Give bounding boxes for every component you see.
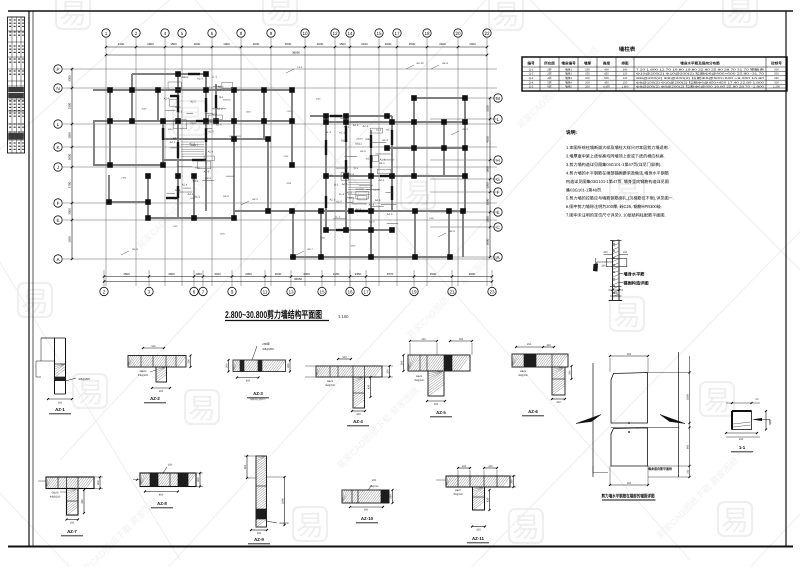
bottom part — [610, 286, 622, 288]
core1 black wall bars — [163, 74, 216, 198]
svg-text:2100: 2100 — [361, 42, 368, 46]
sheet frame inner left border — [32, 11, 34, 546]
svg-text:AZ-11: AZ-11 — [472, 536, 485, 541]
svg-text:易: 易 — [296, 510, 324, 541]
svg-text:2000: 2000 — [469, 42, 476, 46]
svg-text:3050: 3050 — [303, 272, 310, 276]
svg-text:2000: 2000 — [253, 42, 260, 46]
svg-text:3.剪力墙构造详见图集03G101-1第47页(详见门窗表): 3.剪力墙构造详见图集03G101-1第47页(详见门窗表). — [566, 162, 662, 167]
svg-text:Φ10@200(2) Φ10@200(2) 拉筋Φ6@60: Φ10@200(2) Φ10@200(2) 拉筋Φ6@600×600 25.80… — [636, 72, 765, 76]
peripheral leader labels — [121, 62, 468, 255]
shear wall columns black — [106, 71, 468, 260]
svg-text:AZ-8: AZ-8 — [204, 170, 210, 173]
svg-text:7.20 1.800 12.70 16.80 19.80: 7.20 1.800 12.70 16.80 19.80 22.80 25.80… — [636, 67, 765, 71]
svg-text:2900: 2900 — [430, 272, 437, 276]
svg-text:AZ-6: AZ-6 — [360, 150, 366, 153]
svg-text:900: 900 — [244, 464, 247, 469]
svg-text:450: 450 — [604, 82, 609, 85]
svg-text:200: 200 — [739, 438, 744, 441]
svg-text:集03G101-1第48页.: 集03G101-1第48页. — [566, 187, 602, 192]
svg-text:200: 200 — [476, 529, 481, 532]
svg-text:3300: 3300 — [68, 75, 72, 82]
svg-text:2000: 2000 — [194, 42, 201, 46]
svg-text:AZ-4: AZ-4 — [164, 98, 170, 101]
svg-text:1800: 1800 — [385, 42, 392, 46]
svg-text:6: 6 — [193, 289, 196, 294]
svg-text:120: 120 — [623, 73, 628, 76]
sheet frame left border — [28, 11, 30, 546]
svg-text:4800: 4800 — [168, 272, 175, 276]
svg-text:200: 200 — [585, 77, 590, 80]
svg-text:100: 100 — [372, 479, 377, 482]
svg-text:1650: 1650 — [68, 236, 72, 243]
wall section detail AZ-7 — [38, 476, 103, 536]
svg-text:5层: 5层 — [547, 81, 551, 85]
svg-text:易: 易 — [266, 0, 294, 25]
svg-text:4层: 4层 — [547, 76, 551, 80]
svg-text:200: 200 — [568, 370, 571, 375]
svg-text:2.墙厚度中梁上皮标高均同墙顶上皮或下皮的相应标高.: 2.墙厚度中梁上皮标高均同墙顶上皮或下皮的相应标高. — [566, 154, 665, 159]
svg-text:易: 易 — [726, 0, 754, 27]
svg-text:2600: 2600 — [317, 42, 324, 46]
svg-text:Q-1: Q-1 — [192, 178, 197, 181]
svg-text:AZ-8: AZ-8 — [157, 501, 167, 506]
svg-text:Φ8@200(2) Φ8@200(2) 拉筋Φ6@600: Φ8@200(2) Φ8@200(2) 拉筋Φ6@600 19.80 25.80… — [636, 85, 765, 89]
svg-text:140: 140 — [623, 68, 628, 71]
svg-text:1:100: 1:100 — [338, 314, 349, 319]
svg-text:200: 200 — [556, 401, 561, 404]
svg-text:AZ-2: AZ-2 — [462, 128, 468, 131]
svg-text:1.本图所绘柱墙断面大样及墙柱大样只对本层剪力墙适用.: 1.本图所绘柱墙断面大样及墙柱大样只对本层剪力墙适用. — [566, 145, 669, 150]
svg-text:1200: 1200 — [190, 197, 196, 200]
svg-text:LL-1: LL-1 — [374, 189, 380, 192]
svg-text:AZ-1: AZ-1 — [329, 199, 335, 202]
title block strip — [8, 17, 25, 153]
wall section detail AZ-3 — [225, 342, 291, 401]
svg-text:LL-1: LL-1 — [297, 66, 303, 69]
svg-text:20: 20 — [455, 31, 461, 36]
svg-text:G: G — [496, 177, 500, 182]
svg-text:500: 500 — [604, 77, 609, 80]
svg-text:易: 易 — [59, 0, 87, 29]
svg-text:200: 200 — [488, 465, 493, 468]
svg-text:锚固构造详图: 锚固构造详图 — [623, 281, 648, 286]
right grid bubbles — [494, 94, 502, 261]
svg-text:4570: 4570 — [387, 272, 394, 276]
svg-text:1500: 1500 — [486, 216, 490, 223]
svg-text:650: 650 — [627, 353, 632, 356]
wall column table — [522, 57, 787, 91]
svg-text:易: 易 — [21, 286, 49, 317]
svg-text:5.剪力墙的拉筋应与墙筋钢筋绑扎,(沉梯筋位不限),详见图一: 5.剪力墙的拉筋应与墙筋钢筋绑扎,(沉梯筋位不限),详见图一. — [566, 196, 674, 201]
svg-text:130: 130 — [623, 77, 628, 80]
svg-text:3000: 3000 — [68, 208, 72, 215]
svg-text:墙厚: 墙厚 — [584, 61, 592, 66]
svg-text:5: 5 — [181, 31, 184, 36]
svg-text:Φ8@200: Φ8@200 — [518, 374, 528, 377]
svg-text:21: 21 — [449, 289, 455, 294]
svg-text:Q-4: Q-4 — [529, 82, 534, 85]
svg-text:易: 易 — [492, 0, 520, 30]
svg-text:Q-3: Q-3 — [529, 77, 534, 80]
svg-text:9: 9 — [231, 289, 234, 294]
svg-text:Φ8@150(2) Φ10@200(2) 拉筋Φ6@45: Φ8@150(2) Φ10@200(2) 拉筋Φ6@450×450 17.40 … — [636, 81, 765, 85]
svg-text:1800: 1800 — [281, 498, 284, 504]
svg-text:250: 250 — [585, 68, 590, 71]
svg-text:2000: 2000 — [486, 198, 490, 205]
svg-text:200: 200 — [225, 363, 228, 368]
svg-text:350: 350 — [81, 499, 84, 504]
svg-text:F: F — [57, 201, 60, 206]
svg-text:38050: 38050 — [292, 51, 300, 55]
svg-text:排距: 排距 — [621, 61, 629, 66]
stair hatch core1 — [181, 142, 370, 194]
svg-text:16: 16 — [347, 289, 353, 294]
svg-text:1500: 1500 — [246, 111, 252, 114]
svg-text:P: P — [56, 67, 59, 72]
svg-text:AZ-1: AZ-1 — [344, 126, 350, 129]
svg-text:GBZ4: GBZ4 — [416, 375, 423, 378]
svg-text:1900: 1900 — [223, 42, 230, 46]
svg-text:AZ-2: AZ-2 — [363, 125, 369, 128]
svg-text:AZ-2: AZ-2 — [386, 129, 392, 132]
svg-text:11: 11 — [263, 289, 268, 294]
svg-text:4500: 4500 — [123, 272, 130, 276]
svg-text:Q-5: Q-5 — [529, 86, 534, 89]
svg-text:AZ-8: AZ-8 — [369, 203, 375, 206]
core unit 1 annotations — [164, 75, 241, 200]
svg-text:GBZ1: GBZ1 — [341, 140, 348, 143]
svg-text:2150: 2150 — [333, 272, 340, 276]
svg-text:Q-2: Q-2 — [529, 73, 534, 76]
svg-text:200: 200 — [70, 522, 75, 525]
top grid bubbles — [102, 29, 491, 37]
svg-text:15: 15 — [319, 289, 325, 294]
svg-text:墙身竖向筋平直段: 墙身竖向筋平直段 — [648, 467, 673, 471]
svg-text:430: 430 — [486, 497, 489, 502]
svg-text:AZ-5: AZ-5 — [369, 221, 375, 224]
svg-text:Φ8@200: Φ8@200 — [453, 493, 463, 496]
svg-text:14: 14 — [347, 31, 353, 36]
svg-text:22: 22 — [484, 31, 490, 36]
svg-text:500: 500 — [774, 73, 779, 76]
svg-text:LL-1: LL-1 — [376, 128, 382, 131]
bottom grid bubbles — [100, 270, 496, 296]
section detail 1-1 — [725, 398, 772, 452]
svg-text:200: 200 — [159, 390, 164, 393]
svg-text:Φ8@200: Φ8@200 — [50, 496, 61, 499]
stair hatch core2 — [348, 179, 370, 181]
svg-text:2100: 2100 — [118, 42, 125, 46]
svg-text:15: 15 — [376, 31, 382, 36]
svg-text:Q-1: Q-1 — [354, 167, 359, 170]
svg-text:高度: 高度 — [603, 61, 611, 66]
svg-text:1950: 1950 — [195, 272, 202, 276]
svg-text:2600: 2600 — [275, 272, 282, 276]
svg-text:38050: 38050 — [294, 277, 302, 281]
svg-text:Φ8@200: Φ8@200 — [78, 377, 90, 381]
svg-text:500: 500 — [151, 345, 156, 348]
svg-text:AZ-2: AZ-2 — [150, 396, 160, 401]
svg-text:墙身1: 墙身1 — [565, 67, 572, 71]
svg-text:200: 200 — [603, 251, 608, 254]
svg-text:GBZ2: GBZ2 — [140, 370, 147, 373]
svg-text:J: J — [57, 165, 59, 170]
svg-text:AZ-1: AZ-1 — [175, 189, 181, 192]
svg-text:AZ-1: AZ-1 — [355, 208, 361, 211]
svg-text:GBZ1: GBZ1 — [366, 138, 373, 141]
svg-text:AZ-6: AZ-6 — [349, 197, 355, 200]
svg-text:1900: 1900 — [486, 166, 490, 173]
svg-text:2层: 2层 — [547, 67, 551, 71]
svg-text:200: 200 — [462, 465, 467, 468]
svg-text:H: H — [496, 158, 499, 163]
svg-text:E: E — [496, 210, 499, 215]
svg-text:AZ-6: AZ-6 — [197, 78, 203, 81]
svg-text:编号: 编号 — [527, 61, 535, 66]
svg-text:LL-1: LL-1 — [212, 75, 218, 78]
svg-text:所在层: 所在层 — [544, 61, 555, 66]
svg-text:AZ-5: AZ-5 — [342, 183, 348, 186]
svg-text:200: 200 — [614, 292, 619, 295]
svg-text:2800: 2800 — [147, 42, 154, 46]
svg-text:AZ-10: AZ-10 — [361, 516, 374, 521]
svg-text:450: 450 — [604, 73, 609, 76]
svg-text:100: 100 — [546, 344, 551, 347]
svg-text:2700: 2700 — [68, 181, 72, 188]
svg-text:200: 200 — [187, 359, 190, 364]
svg-text:1200: 1200 — [328, 174, 334, 177]
svg-text:F: F — [497, 190, 500, 195]
svg-text:200: 200 — [400, 360, 403, 365]
svg-text:1500: 1500 — [68, 132, 72, 139]
svg-text:23: 23 — [489, 289, 495, 294]
svg-text:200: 200 — [623, 251, 628, 254]
svg-text:LL-1: LL-1 — [203, 123, 209, 126]
svg-text:18: 18 — [424, 31, 430, 36]
svg-text:4.470: 4.470 — [603, 86, 610, 89]
svg-text:2.800~30.800剪力墙结构平面图: 2.800~30.800剪力墙结构平面图 — [225, 309, 322, 321]
svg-text:1200: 1200 — [173, 225, 179, 228]
svg-text:墙身4: 墙身4 — [565, 81, 572, 85]
svg-text:2100: 2100 — [486, 105, 490, 112]
svg-text:墙身水平筋: 墙身水平筋 — [624, 272, 646, 277]
svg-text:2500: 2500 — [285, 42, 292, 46]
svg-text:250: 250 — [585, 73, 590, 76]
svg-text:墙柱表: 墙柱表 — [619, 46, 636, 53]
svg-text:AZ-7: AZ-7 — [67, 529, 77, 534]
svg-text:AZ-1: AZ-1 — [170, 141, 176, 144]
svg-text:AZ-3: AZ-3 — [382, 139, 388, 142]
svg-text:Φ8@200: Φ8@200 — [370, 485, 380, 488]
svg-text:200: 200 — [585, 82, 590, 85]
svg-text:GBZ3: GBZ3 — [327, 380, 334, 383]
svg-text:AZ-8: AZ-8 — [348, 173, 354, 176]
svg-text:AZ-3: AZ-3 — [207, 86, 213, 89]
svg-text:400: 400 — [604, 68, 609, 71]
plan axis grid lines vertical — [106, 38, 487, 286]
svg-text:L: L — [57, 122, 60, 127]
svg-text:7.图中未注明的定位尺寸详见9, 10层结构柱配筋平面图.: 7.图中未注明的定位尺寸详见9, 10层结构柱配筋平面图. — [566, 212, 666, 217]
svg-text:500: 500 — [342, 356, 347, 359]
wall section detail AZ-4 — [305, 356, 393, 426]
svg-text:AZ-1: AZ-1 — [366, 158, 372, 161]
svg-text:墙身编号: 墙身编号 — [561, 61, 576, 66]
svg-text:2400: 2400 — [429, 217, 435, 220]
svg-text:AZ-3: AZ-3 — [173, 137, 179, 140]
svg-text:200: 200 — [585, 86, 590, 89]
svg-text:Q-1: Q-1 — [529, 68, 534, 71]
svg-text:13: 13 — [288, 289, 294, 294]
svg-text:200: 200 — [601, 265, 606, 268]
svg-text:易: 易 — [613, 300, 641, 331]
svg-text:LL-1: LL-1 — [335, 216, 341, 219]
wall section detail AZ-2 — [128, 345, 192, 403]
svg-text:AZ-4: AZ-4 — [375, 199, 381, 202]
svg-text:1.800: 1.800 — [622, 86, 629, 89]
svg-text:AZ-6: AZ-6 — [369, 209, 375, 212]
svg-text:3层: 3层 — [547, 72, 551, 76]
svg-text:3400: 3400 — [214, 272, 221, 276]
svg-text:GBZ7: GBZ7 — [455, 489, 462, 492]
svg-text:2: 2 — [135, 31, 138, 36]
svg-text:GBZ1: GBZ1 — [190, 122, 197, 125]
sheet frame right border — [785, 11, 787, 546]
svg-text:AZ-4: AZ-4 — [212, 113, 218, 116]
svg-text:6.图中剪力墙除注明为200厚, 砼C25, 钢筋HPB3: 6.图中剪力墙除注明为200厚, 砼C25, 钢筋HPB300级. — [566, 204, 662, 209]
svg-text:4.剪力墙的水平钢筋在端部锚固要求及做法,墙身水平钢筋: 4.剪力墙的水平钢筋在端部锚固要求及做法,墙身水平钢筋 — [566, 171, 669, 176]
svg-text:AZ-5: AZ-5 — [208, 131, 214, 134]
svg-text:AZ-5: AZ-5 — [252, 198, 258, 201]
svg-text:AZ-5: AZ-5 — [336, 201, 342, 204]
svg-text:墙身2: 墙身2 — [565, 72, 572, 76]
svg-text:AZ-1: AZ-1 — [339, 131, 345, 134]
wall section detail AZ-8 — [133, 464, 203, 508]
svg-text:AZ-6: AZ-6 — [223, 195, 229, 198]
svg-text:GBZ1: GBZ1 — [182, 76, 189, 79]
svg-text:AZ-6: AZ-6 — [528, 409, 538, 414]
svg-text:墙身水平筋及竖向分布筋: 墙身水平筋及竖向分布筋 — [680, 61, 720, 66]
core2 black wall bars — [326, 116, 392, 230]
svg-text:AZ-5: AZ-5 — [436, 410, 446, 415]
right dimension line — [486, 97, 492, 258]
svg-text:2000: 2000 — [141, 107, 147, 110]
beam walls gray — [93, 72, 465, 257]
svg-text:Φ8@200(2) Φ8@200(2) 拉筋Φ6@60: Φ8@200(2) Φ8@200(2) 拉筋Φ6@600×600 +9.000 … — [636, 76, 765, 80]
svg-text:200: 200 — [356, 413, 361, 416]
svg-text:AZ-9: AZ-9 — [449, 230, 455, 233]
svg-text:Φ8@200: Φ8@200 — [414, 379, 424, 382]
svg-text:配筋同上图所示: 配筋同上图所示 — [250, 398, 266, 401]
svg-text:200: 200 — [97, 480, 100, 485]
top dimension line 2 overall — [106, 54, 487, 56]
svg-text:2000: 2000 — [320, 236, 326, 239]
svg-text:LL-1: LL-1 — [339, 193, 345, 196]
svg-text:构造详见图集03G101-1第47页, 墙身竖向钢筋构造详: 构造详见图集03G101-1第47页, 墙身竖向钢筋构造详见图 — [566, 179, 669, 184]
svg-text:砼标号: 砼标号 — [771, 61, 782, 66]
svg-text:AZ-7: AZ-7 — [307, 248, 313, 251]
svg-text:100: 100 — [168, 464, 173, 467]
wall section detail AZ-1 — [36, 338, 90, 414]
svg-text:1-1: 1-1 — [739, 445, 746, 450]
svg-text:200厚: 200厚 — [262, 342, 270, 346]
svg-text:Φ8@200: Φ8@200 — [279, 522, 289, 525]
svg-text:AZ-3: AZ-3 — [253, 391, 263, 396]
svg-text:250: 250 — [527, 343, 532, 346]
svg-text:2500: 2500 — [409, 42, 416, 46]
svg-text:AZ-5: AZ-5 — [216, 124, 222, 127]
svg-text:Φ8@200: Φ8@200 — [262, 347, 274, 351]
svg-text:650: 650 — [627, 482, 632, 485]
wall section detail AZ-9 — [244, 455, 290, 544]
section cut blob — [593, 264, 598, 272]
svg-text:10: 10 — [302, 31, 308, 36]
svg-text:1500: 1500 — [170, 42, 177, 46]
svg-text:N: N — [56, 86, 59, 91]
svg-text:AZ-6: AZ-6 — [379, 179, 385, 182]
svg-text:AZ-5: AZ-5 — [190, 100, 196, 103]
svg-text:易: 易 — [188, 393, 216, 424]
svg-text:250: 250 — [421, 338, 426, 341]
svg-text:AZ-5: AZ-5 — [340, 117, 346, 120]
left dimension line — [68, 68, 74, 260]
svg-text:6: 6 — [211, 31, 214, 36]
leader lines and labels — [604, 254, 613, 256]
svg-text:17: 17 — [363, 289, 369, 294]
rebar dots — [613, 243, 614, 244]
svg-text:LL-1: LL-1 — [326, 131, 332, 134]
svg-text:4: 4 — [164, 31, 167, 36]
svg-text:2400: 2400 — [220, 233, 226, 236]
svg-text:GBZ1: GBZ1 — [355, 143, 362, 146]
rebar anchorage detail — [576, 352, 691, 500]
svg-text:AZ-1: AZ-1 — [55, 407, 65, 412]
svg-text:GBZ6: GBZ6 — [52, 492, 59, 495]
svg-text:易: 易 — [512, 512, 540, 543]
svg-text:200: 200 — [197, 477, 200, 482]
svg-text:AZ-4: AZ-4 — [182, 184, 188, 187]
sheet frame bottom border — [8, 546, 793, 548]
svg-text:AZ-6: AZ-6 — [175, 106, 181, 109]
svg-text:AZ-4: AZ-4 — [442, 62, 448, 65]
svg-text:300: 300 — [364, 509, 369, 512]
svg-text:1200: 1200 — [283, 155, 289, 158]
svg-text:400: 400 — [159, 494, 164, 497]
svg-text:1800: 1800 — [686, 394, 689, 400]
svg-text:200: 200 — [58, 402, 63, 405]
svg-text:2000: 2000 — [194, 166, 200, 169]
svg-text:9: 9 — [270, 31, 273, 36]
svg-text:1: 1 — [105, 31, 108, 36]
svg-text:1500: 1500 — [350, 244, 356, 247]
svg-text:AZ-3: AZ-3 — [208, 150, 214, 153]
svg-text:200: 200 — [386, 369, 389, 374]
wall section detail AZ-6 — [512, 343, 573, 416]
svg-text:1.200: 1.200 — [773, 86, 780, 89]
svg-text:2400: 2400 — [287, 110, 293, 113]
svg-text:3000: 3000 — [68, 153, 72, 160]
svg-text:GBZ5: GBZ5 — [520, 370, 527, 373]
svg-text:Q-1: Q-1 — [334, 183, 339, 186]
svg-text:易: 易 — [404, 178, 432, 209]
svg-text:430: 430 — [367, 384, 370, 389]
svg-text:Q-1: Q-1 — [219, 96, 224, 99]
svg-text:2600: 2600 — [439, 42, 446, 46]
svg-text:900: 900 — [686, 444, 689, 449]
svg-text:500: 500 — [774, 68, 779, 71]
wall section detail AZ-11 — [436, 465, 516, 543]
svg-text:150: 150 — [623, 82, 628, 85]
